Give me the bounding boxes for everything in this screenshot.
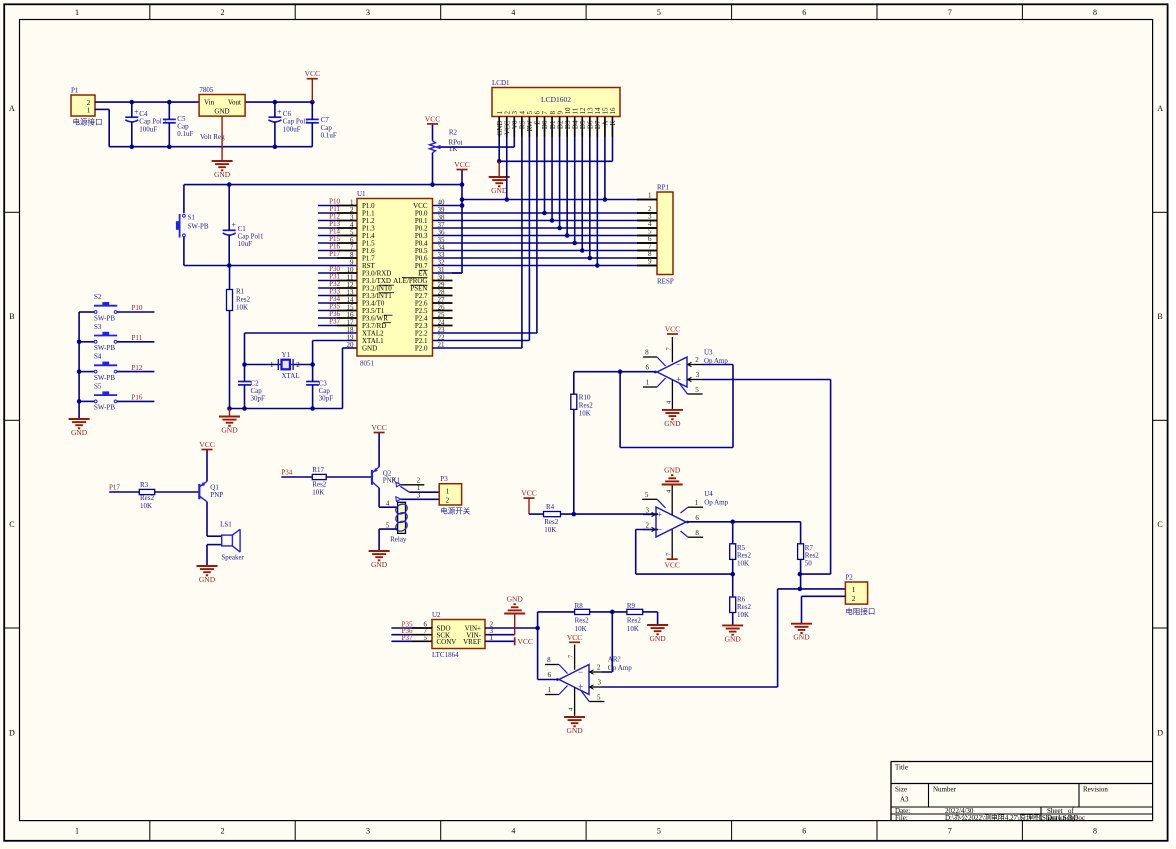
svg-text:电源开关: 电源开关 [440,506,470,516]
svg-text:GND: GND [649,634,666,643]
svg-text:1: 1 [548,686,552,694]
svg-text:3: 3 [417,491,421,499]
svg-text:File:: File: [895,814,908,822]
svg-text:5: 5 [657,827,661,836]
svg-text:Speaker: Speaker [221,554,244,562]
svg-text:5: 5 [645,491,649,499]
svg-text:6: 6 [802,827,806,836]
svg-text:2: 2 [646,521,650,529]
svg-text:8051: 8051 [360,360,375,368]
svg-text:C7: C7 [321,116,330,124]
svg-text:A: A [1157,104,1163,113]
svg-text:RP1: RP1 [657,184,670,192]
svg-text:GND: GND [566,726,583,735]
svg-text:D: D [1157,728,1163,737]
svg-text:P1: P1 [71,87,79,95]
svg-text:10K: 10K [140,502,152,510]
svg-text:P2: P2 [845,574,853,582]
svg-text:U3: U3 [704,349,713,357]
svg-text:C: C [1157,520,1162,529]
svg-text:10K: 10K [737,611,749,619]
svg-text:3: 3 [598,679,602,687]
svg-text:1: 1 [852,586,856,594]
svg-text:VCC: VCC [521,489,536,498]
svg-text:GND: GND [793,633,810,642]
svg-text:100uF: 100uF [283,125,301,133]
svg-text:2: 2 [221,8,225,17]
svg-text:P10: P10 [132,304,143,312]
svg-text:B: B [1157,312,1162,321]
svg-text:2: 2 [296,361,300,369]
svg-text:8: 8 [695,529,699,537]
svg-text:Drawn By:: Drawn By: [1047,814,1078,822]
svg-text:2: 2 [417,476,421,484]
svg-text:10K: 10K [575,625,587,633]
svg-text:U1: U1 [357,190,366,198]
svg-text:9: 9 [648,258,652,266]
svg-text:5: 5 [657,8,661,17]
svg-text:GND: GND [725,634,742,643]
svg-text:2: 2 [695,356,699,364]
svg-text:VCC: VCC [665,325,680,334]
svg-text:VCC: VCC [518,637,533,646]
svg-text:B: B [9,312,14,321]
svg-text:Res2: Res2 [627,617,642,625]
svg-text:7: 7 [948,8,952,17]
svg-text:U4: U4 [704,490,713,498]
svg-text:R4: R4 [546,503,555,511]
svg-text:6: 6 [802,8,806,17]
svg-text:50: 50 [805,560,813,568]
svg-text:20: 20 [347,341,355,349]
svg-text:LCD1: LCD1 [492,79,510,87]
svg-text:5: 5 [597,694,601,702]
svg-text:10K: 10K [627,625,639,633]
svg-text:VCC: VCC [454,160,469,169]
svg-text:Vout: Vout [228,98,241,106]
svg-text:8: 8 [547,656,551,664]
svg-text:Res2: Res2 [579,402,594,410]
svg-text:AR?: AR? [608,655,621,663]
svg-text:1K: 1K [449,145,458,153]
svg-text:R17: R17 [312,466,324,474]
svg-text:+: + [134,108,139,117]
svg-text:6: 6 [646,364,650,372]
svg-text:R3: R3 [140,481,149,489]
svg-text:−: − [578,667,583,677]
svg-text:−: − [676,359,681,369]
svg-text:P37: P37 [329,318,340,326]
svg-text:1: 1 [75,827,79,836]
svg-text:P17: P17 [109,484,120,492]
svg-text:4: 4 [511,8,515,17]
svg-text:30pF: 30pF [251,395,266,403]
svg-text:10K: 10K [737,560,749,568]
svg-text:10K: 10K [544,526,556,534]
svg-text:GND: GND [71,428,88,437]
svg-text:Res2: Res2 [236,296,251,304]
svg-text:2: 2 [852,595,856,603]
svg-text:GND: GND [371,560,388,569]
svg-text:S2: S2 [94,293,102,301]
svg-text:6: 6 [695,514,699,522]
svg-text:D: D [9,728,15,737]
svg-text:2: 2 [446,497,450,505]
svg-text:3: 3 [366,8,370,17]
svg-text:Res2: Res2 [737,603,752,611]
svg-text:GND: GND [221,426,238,435]
svg-text:LS1: LS1 [220,520,232,528]
svg-text:R1: R1 [236,288,245,296]
svg-text:R2: R2 [449,129,458,137]
svg-text:1: 1 [75,8,79,17]
svg-text:Number: Number [933,786,957,794]
svg-text:Size: Size [895,786,907,794]
svg-text:Volt Reg: Volt Reg [200,133,225,141]
svg-text:3: 3 [646,506,650,514]
svg-text:Res2: Res2 [737,552,752,560]
svg-text:7: 7 [948,827,952,836]
svg-text:+: + [277,108,282,117]
svg-text:P16: P16 [132,394,143,402]
svg-text:VREF: VREF [463,638,481,646]
svg-text:16: 16 [609,107,617,115]
svg-text:1: 1 [446,488,450,496]
svg-text:GND: GND [214,108,229,116]
svg-text:S1: S1 [188,214,196,222]
svg-text:SW-PB: SW-PB [94,314,115,322]
svg-text:4: 4 [511,827,515,836]
svg-text:Relay: Relay [390,536,407,544]
svg-text:Res2: Res2 [312,480,327,488]
svg-text:1: 1 [270,361,274,369]
svg-text:XTAL: XTAL [282,372,300,380]
svg-text:4: 4 [386,499,390,507]
svg-text:SW-PB: SW-PB [188,223,209,231]
svg-text:VCC: VCC [664,561,679,570]
svg-text:1: 1 [695,499,699,507]
svg-text:LTC1864: LTC1864 [432,651,459,659]
svg-text:GND: GND [199,575,216,584]
svg-text:S3: S3 [94,323,102,331]
svg-text:+: + [231,221,236,230]
svg-text:R10: R10 [579,394,591,402]
svg-text:10K: 10K [579,410,591,418]
svg-text:VCC: VCC [371,423,386,432]
svg-text:8: 8 [645,348,649,356]
svg-text:C: C [9,520,14,529]
svg-text:7805: 7805 [199,86,214,94]
svg-text:Op Amp: Op Amp [704,499,728,507]
svg-text:6: 6 [548,671,552,679]
svg-text:P17: P17 [329,250,340,258]
svg-text:2: 2 [221,827,225,836]
svg-text:Title: Title [895,764,908,772]
svg-text:10K: 10K [236,304,248,312]
svg-text:1: 1 [648,192,652,200]
svg-text:U2: U2 [432,611,441,619]
svg-text:A: A [9,104,15,113]
svg-text:VCC: VCC [567,633,582,642]
svg-text:GND: GND [664,466,681,475]
svg-text:CONV: CONV [437,638,457,646]
svg-text:VCC: VCC [305,69,320,78]
svg-text:3: 3 [366,827,370,836]
svg-text:+: + [578,682,583,692]
svg-text:K: K [609,121,617,126]
svg-text:VCC: VCC [199,440,214,449]
svg-text:8: 8 [1093,8,1097,17]
svg-text:0.1uF: 0.1uF [177,130,193,138]
svg-text:10K: 10K [312,488,324,496]
svg-text:RESP: RESP [657,278,674,286]
svg-text:GND: GND [491,186,508,195]
svg-text:GND: GND [214,170,231,179]
svg-text:S5: S5 [94,383,102,391]
svg-text:P37: P37 [402,634,413,642]
svg-text:VCC: VCC [425,114,440,123]
svg-text:5: 5 [424,634,428,642]
svg-text:GND: GND [664,419,681,428]
svg-text:R8: R8 [575,602,584,610]
svg-text:Revision: Revision [1083,786,1108,794]
svg-text:PNP: PNP [210,491,223,499]
svg-text:1: 1 [646,379,650,387]
svg-text:Op Amp: Op Amp [608,664,632,672]
svg-text:GND: GND [507,595,524,604]
svg-text:电阻接口: 电阻接口 [845,606,875,616]
svg-text:100uF: 100uF [139,125,157,133]
svg-text:A3: A3 [900,796,909,804]
svg-text:S4: S4 [94,353,102,361]
svg-text:Res2: Res2 [805,552,820,560]
svg-text:0.1uF: 0.1uF [321,131,337,139]
svg-text:P3: P3 [440,475,448,483]
svg-text:SW-PB: SW-PB [94,344,115,352]
svg-text:Y1: Y1 [282,351,291,359]
svg-text:5: 5 [386,521,390,529]
svg-text:GND: GND [362,345,377,353]
svg-text:P12: P12 [132,364,143,372]
svg-text:P34: P34 [281,469,292,477]
svg-text:R9: R9 [627,602,636,610]
svg-text:电源接口: 电源接口 [73,117,103,127]
svg-text:1: 1 [87,107,91,115]
svg-text:+: + [676,374,681,384]
svg-text:10uF: 10uF [238,240,253,248]
svg-text:Res2: Res2 [575,617,590,625]
svg-text:30pF: 30pF [319,395,334,403]
svg-text:P2.0: P2.0 [415,345,428,353]
svg-text:Res2: Res2 [544,518,559,526]
svg-text:Res2: Res2 [140,494,155,502]
svg-text:2: 2 [597,664,601,672]
svg-text:5: 5 [695,386,699,394]
svg-text:SW-PB: SW-PB [94,374,115,382]
svg-text:Vin: Vin [204,98,215,106]
svg-text:8: 8 [1093,827,1097,836]
svg-text:LCD1602: LCD1602 [541,95,571,104]
svg-text:P11: P11 [132,334,143,342]
svg-text:SW-PB: SW-PB [94,404,115,412]
svg-text:3: 3 [696,371,700,379]
